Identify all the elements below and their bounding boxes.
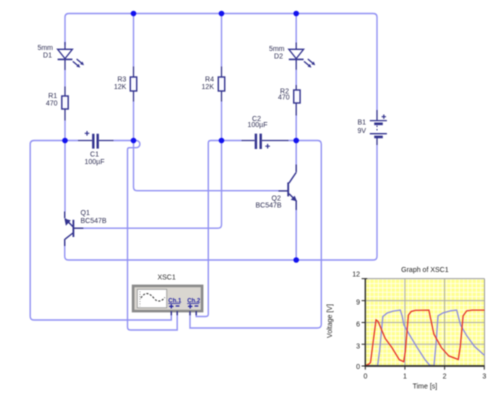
wire D1-R1 column x=65 segments	[64, 70, 66, 212]
wire node B loop down x=127.5 to Ch1- pin	[128, 141, 178, 331]
svg-text:Graph of XSC1: Graph of XSC1	[401, 267, 449, 274]
svg-text:1: 1	[403, 373, 407, 380]
svg-text:9V: 9V	[358, 128, 367, 135]
wire node B down then right to Q2 base	[134, 141, 279, 191]
svg-text:12K: 12K	[114, 84, 127, 91]
svg-text:C1: C1	[90, 152, 99, 159]
wire R3 column x=133.5 top and to node B	[133, 14, 135, 141]
transistor Q2 emitter arrowhead	[291, 196, 297, 202]
oscilloscope channel 2 label	[187, 299, 201, 309]
svg-text:100µF: 100µF	[248, 122, 268, 129]
wire node C left then down x=208.3 to Ch2- pin	[196, 141, 221, 317]
svg-text:12K: 12K	[202, 84, 215, 91]
resistor R2	[294, 85, 300, 116]
svg-text:6: 6	[356, 322, 360, 329]
svg-text:D1: D1	[43, 52, 52, 59]
diode D2 LED symbol	[289, 43, 313, 70]
svg-text:12: 12	[352, 272, 360, 279]
graph axes	[364, 279, 366, 366]
diode D2 arrowheads	[308, 62, 316, 68]
graph of XSC1 plot area	[362, 279, 485, 370]
capacitor C1	[78, 131, 114, 149]
svg-text:0: 0	[356, 364, 360, 371]
svg-text:R3: R3	[117, 77, 126, 84]
transistor Q1 BC547B	[65, 212, 84, 247]
svg-text:3: 3	[356, 344, 360, 351]
resistor R4	[218, 67, 224, 102]
graph text labels	[327, 267, 487, 390]
svg-text:100µF: 100µF	[85, 159, 105, 166]
graph blue trace	[366, 310, 485, 366]
svg-text:Q1: Q1	[81, 210, 90, 217]
wire D2-R2 column x=296.2 segments	[295, 14, 297, 261]
svg-text:R1: R1	[48, 93, 57, 100]
wire node A (65,140.5) to left rail x=30 down to Ch1+ pin	[30, 141, 171, 321]
svg-text:BC547B: BC547B	[256, 202, 282, 209]
graph major gridlines	[365, 301, 484, 345]
resistor R1	[62, 87, 68, 121]
resistor R3	[130, 67, 136, 102]
svg-text:9: 9	[356, 300, 360, 307]
svg-text:R4: R4	[205, 77, 214, 84]
transistor Q2 BC547B	[278, 165, 296, 211]
svg-text:0: 0	[364, 373, 368, 380]
junction dot node C	[219, 138, 225, 144]
wire bottom emitter rail y=260 from Q1 emitter to battery bottom	[65, 145, 377, 260]
svg-text:XSC1: XSC1	[157, 275, 175, 282]
wire C1 right lead to node B (133.5,140.5)	[114, 140, 134, 142]
wire top power rail from x=65 to battery x=377	[65, 14, 377, 111]
svg-text:2: 2	[443, 373, 447, 380]
oscilloscope XSC1 pin stubs	[171, 311, 196, 315]
wire C2 side leads	[222, 140, 297, 142]
junction dot top rail x=133.5	[131, 11, 137, 17]
svg-text:5mm: 5mm	[269, 46, 285, 53]
capacitor C2	[242, 134, 289, 149]
diode D1 LED symbol	[58, 42, 82, 70]
wire R4 column x=221.5 segments	[221, 14, 223, 141]
junction dot top rail x=296.2	[293, 11, 299, 17]
junction dot node B	[131, 138, 137, 144]
oscilloscope channel 1 label	[168, 299, 182, 309]
oscilloscope XSC1 body	[133, 286, 202, 311]
wire node C (221.5,140.5) down then left to Q1 base	[83, 141, 221, 229]
svg-text:BC547B: BC547B	[81, 218, 107, 225]
graph axis ticks	[362, 279, 368, 366]
svg-text:D2: D2	[274, 53, 283, 60]
svg-text:5mm: 5mm	[37, 45, 53, 52]
svg-text:B1: B1	[358, 119, 367, 126]
svg-text:3: 3	[482, 373, 486, 380]
junction dot node D	[293, 138, 299, 144]
svg-text:Time [s]: Time [s]	[413, 383, 438, 390]
battery B1	[370, 110, 387, 145]
svg-text:470: 470	[278, 95, 290, 102]
junction dot node A	[62, 138, 68, 144]
junction dot top rail x=221.5	[219, 11, 225, 17]
svg-text:470: 470	[46, 101, 58, 108]
diode D1 arrowheads	[76, 62, 84, 68]
transistor Q1 emitter arrowhead	[64, 219, 70, 226]
graph red trace	[366, 310, 484, 365]
junction dot emitter rail	[293, 257, 299, 263]
svg-text:Voltage [V]: Voltage [V]	[327, 304, 334, 338]
wire node D (296.2,140.5) right then down x=321.3 to Ch2+ pin	[190, 141, 321, 329]
